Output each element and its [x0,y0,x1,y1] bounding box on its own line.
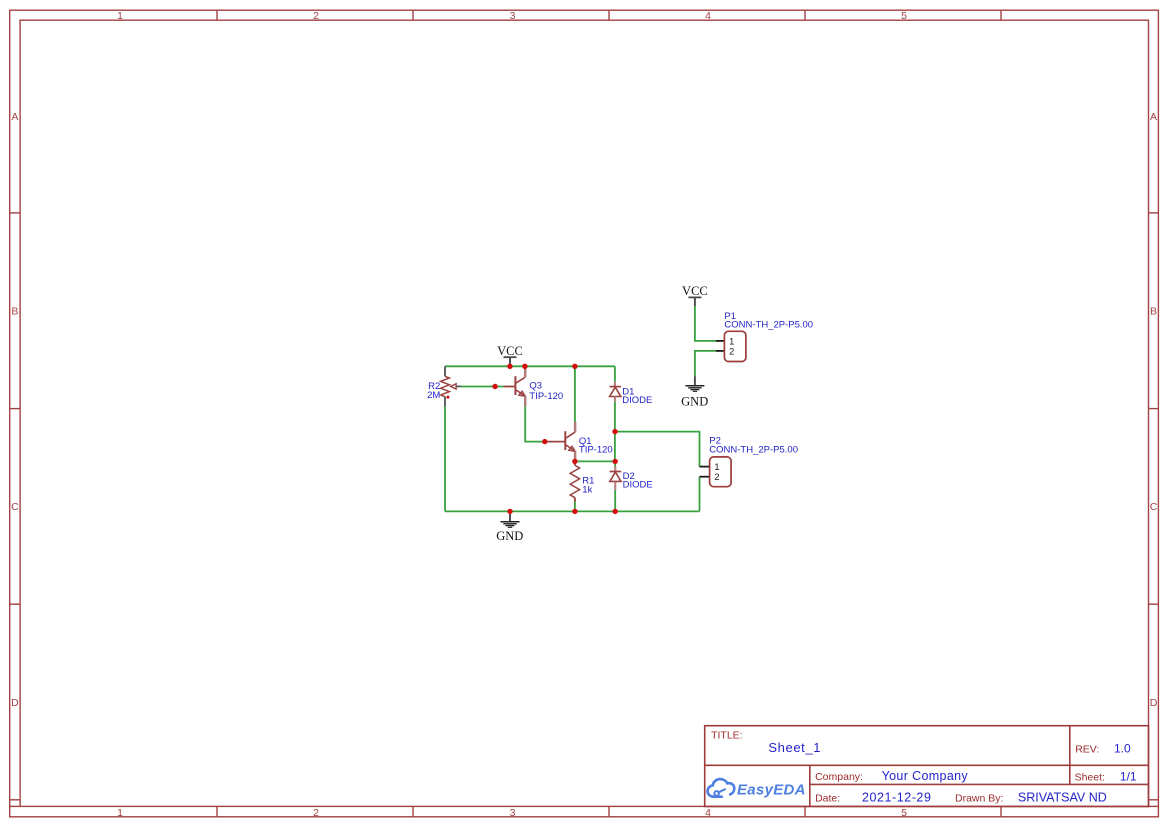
resistor R2 potentiometer [441,366,461,406]
svg-text:2: 2 [313,10,319,22]
svg-text:CONN-TH_2P-P5.00: CONN-TH_2P-P5.00 [724,319,813,330]
svg-text:A: A [11,111,18,123]
svg-text:5: 5 [901,807,907,819]
svg-text:Sheet_1: Sheet_1 [768,740,821,755]
svg-text:CONN-TH_2P-P5.00: CONN-TH_2P-P5.00 [709,445,798,456]
resistor R1 [570,461,579,501]
junction GND / bottom rail [507,509,512,514]
wire R2 wiper to Q3 base [461,386,504,388]
wire D2 top lead [614,461,616,470]
connector P2 [700,457,732,487]
svg-text:4: 4 [705,10,711,22]
junction D2 top node [613,459,618,464]
wire left rail from R2 bottom to ground rail [444,406,446,511]
svg-text:C: C [1150,501,1158,513]
svg-text:2M: 2M [427,390,440,401]
junction Q3 collector / top rail [522,364,527,369]
svg-text:B: B [1150,306,1157,318]
wire D1 top to rail [614,366,616,382]
svg-text:SRIVATSAV ND: SRIVATSAV ND [1018,791,1107,805]
power VCC P1 [682,284,708,306]
diode D1 [610,382,621,402]
wire Q1 collector riser [574,366,576,422]
wire D2 bottom to ground rail [614,490,616,511]
svg-text:1: 1 [714,462,719,472]
wire bottom ground rail [445,510,700,512]
svg-text:VCC: VCC [682,284,708,298]
svg-text:2021-12-29: 2021-12-29 [862,791,931,805]
EasyEDA logo [708,779,806,798]
junction Q1 base wire [542,439,547,444]
svg-text:Drawn By:: Drawn By: [955,792,1003,804]
svg-text:1k: 1k [582,484,592,495]
svg-text:B: B [11,306,18,318]
CIRCUIT [427,284,813,543]
power VCC main [497,344,523,366]
svg-text:4: 4 [705,807,711,819]
transistor Q1 [547,422,575,462]
svg-text:DIODE: DIODE [623,479,653,490]
transistor Q3 [504,366,525,406]
junction R2 wiper wire [492,384,497,389]
svg-text:A: A [1150,111,1157,123]
svg-text:2: 2 [714,472,719,482]
junction Q1 emitter node [572,459,577,464]
svg-text:Q3: Q3 [529,380,542,391]
wire D1 bottom to node [614,402,616,462]
svg-text:Date:: Date: [815,792,840,804]
svg-text:D: D [11,697,19,709]
svg-text:GND: GND [496,529,523,543]
wire VCC to P1 pin1 [695,306,716,341]
junction D1 bottom node [612,429,617,434]
svg-text:Company:: Company: [815,771,863,783]
junction R1 / bottom rail [572,509,577,514]
wire Q1 emitter to D2 node [575,460,615,462]
junction Q1 collector / top rail [572,364,577,369]
svg-text:5: 5 [901,10,907,22]
svg-text:1/1: 1/1 [1120,770,1137,784]
junction D2 / bottom rail [613,509,618,514]
svg-text:1: 1 [117,10,123,22]
svg-text:DIODE: DIODE [622,395,652,406]
wire top rail VCC net [445,365,615,367]
svg-text:3: 3 [510,807,516,819]
svg-text:1: 1 [729,336,734,346]
svg-text:VCC: VCC [497,344,523,358]
svg-text:D: D [1150,697,1158,709]
svg-text:TIP-120: TIP-120 [579,444,613,455]
svg-text:1: 1 [117,807,123,819]
svg-text:EasyEDA: EasyEDA [737,781,806,798]
TITLEBLOCK [705,726,1149,807]
svg-text:GND: GND [681,394,708,408]
ground GND P1 [681,376,708,408]
svg-text:REV:: REV: [1075,744,1099,756]
connector P1 [716,331,746,361]
svg-text:1.0: 1.0 [1114,742,1131,756]
wire node to P2 pin1 [615,432,700,467]
diode D2 [610,467,622,491]
wire P1 pin2 to GND [695,351,716,376]
svg-text:TIP-120: TIP-120 [529,391,563,402]
wire Q3 emitter to Q1 base [525,406,546,441]
wire P2 pin2 to ground rail [699,477,701,512]
svg-text:C: C [11,501,19,513]
svg-text:2: 2 [729,347,734,357]
svg-text:Your Company: Your Company [882,769,969,783]
junction VCC symbol / top rail [507,364,512,369]
wire R1 bottom to ground rail [574,502,576,512]
ground GND main [496,511,523,543]
svg-text:2: 2 [313,807,319,819]
svg-text:3: 3 [510,10,516,22]
svg-text:TITLE:: TITLE: [711,730,743,742]
svg-text:Sheet:: Sheet: [1075,772,1105,784]
